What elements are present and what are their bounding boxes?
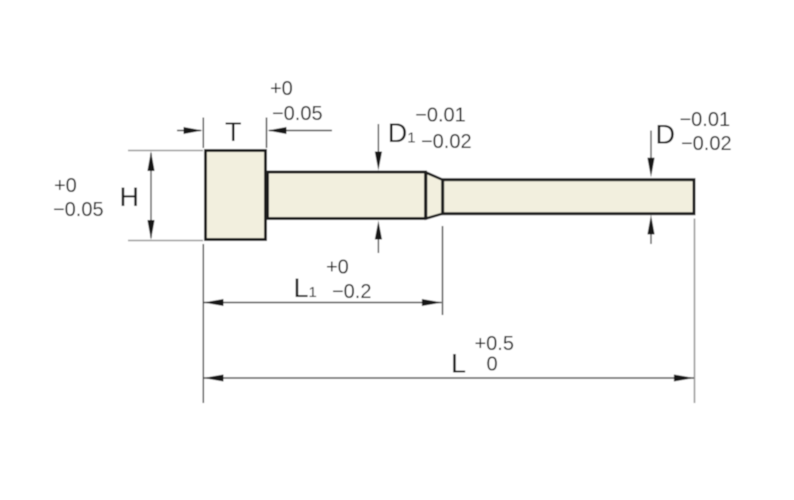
svg-text:1: 1 xyxy=(407,130,415,147)
T arrow pointing right xyxy=(184,127,203,134)
taper between shoulder and shaft xyxy=(426,173,443,219)
svg-text:−0.2: −0.2 xyxy=(332,281,371,303)
D leader line above xyxy=(650,131,652,162)
D1 arrow pointing down xyxy=(375,152,382,171)
svg-text:−0.01: −0.01 xyxy=(415,105,466,127)
D1 arrow pointing up xyxy=(375,221,382,240)
L arrow pointing right xyxy=(674,375,694,382)
svg-text:−0.05: −0.05 xyxy=(272,103,323,125)
T leader line right xyxy=(269,130,332,132)
svg-text:+0: +0 xyxy=(54,175,77,197)
svg-text:−0.05: −0.05 xyxy=(53,199,104,221)
svg-text:H: H xyxy=(120,182,140,212)
svg-text:0: 0 xyxy=(487,354,498,376)
H extension line top (gray) xyxy=(128,150,203,152)
L1/L left extension line xyxy=(202,244,204,403)
L1 dimension line xyxy=(204,302,442,304)
T leader line left xyxy=(177,130,201,132)
svg-text:1: 1 xyxy=(309,284,317,301)
svg-text:D: D xyxy=(656,120,676,150)
svg-text:L: L xyxy=(451,349,466,379)
T arrow pointing left xyxy=(268,127,287,134)
L1 arrow pointing left xyxy=(203,299,223,306)
T extension tick left xyxy=(202,118,204,149)
T extension tick right xyxy=(266,118,268,149)
L dimension line xyxy=(204,377,694,379)
L1 arrow pointing right xyxy=(422,299,442,306)
D arrow pointing up xyxy=(647,215,654,235)
H dimension line xyxy=(150,153,152,238)
svg-text:−0.01: −0.01 xyxy=(680,109,731,131)
svg-text:−0.02: −0.02 xyxy=(421,131,472,153)
D leader line below xyxy=(650,232,652,244)
D1 leader line below xyxy=(377,238,379,253)
svg-text:T: T xyxy=(225,117,242,147)
L right extension line (gray) xyxy=(694,219,696,404)
H arrow up xyxy=(147,151,154,171)
L arrow pointing left xyxy=(203,375,223,382)
svg-text:+0.5: +0.5 xyxy=(475,333,514,355)
svg-text:D: D xyxy=(388,118,408,148)
svg-text:L: L xyxy=(294,273,309,303)
pin shoulder (D1 section) xyxy=(268,172,426,219)
pin head (H x T section) xyxy=(206,151,266,240)
pin shaft (D section) xyxy=(443,180,694,214)
svg-text:+0: +0 xyxy=(270,78,293,100)
D1 leader line above xyxy=(377,124,379,155)
H arrow down xyxy=(147,220,154,240)
svg-text:−0.02: −0.02 xyxy=(681,133,732,155)
D arrow pointing down xyxy=(647,158,654,178)
svg-text:+0: +0 xyxy=(326,257,349,279)
L1 right extension line xyxy=(442,226,444,315)
H extension line bottom (gray) xyxy=(128,240,203,242)
